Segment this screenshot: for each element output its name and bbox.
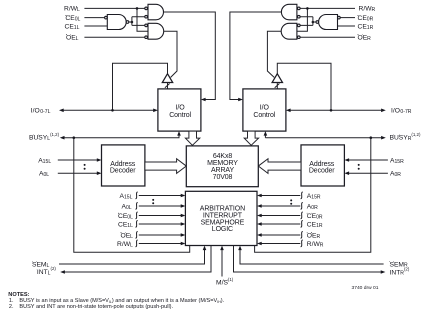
svg-text:R/WL: R/WL (64, 6, 80, 13)
junction I/O 0-7L (111, 109, 114, 112)
arrow SEM_R into arbitration bottom (238, 246, 242, 251)
wire OE_R (300, 36, 355, 38)
arrow OE_L into arbitration (181, 233, 186, 237)
wire M/S (221, 249, 223, 276)
svg-text:A0R: A0R (390, 171, 401, 178)
junction I/O 0-7R (330, 109, 333, 112)
svg-text:A0R: A0R (307, 203, 318, 210)
wire CE0R (340, 17, 355, 19)
arrow A0R into arbitration (257, 204, 262, 208)
svg-text:OEL: OEL (121, 232, 134, 239)
svg-text:A0L: A0L (39, 171, 49, 178)
wire R/W_R arb (261, 243, 300, 245)
dots arb right (290, 199, 292, 201)
arrow into right I/O control left edge (238, 98, 243, 102)
wire A15L arb (139, 195, 181, 197)
nand gate right U2 (319, 15, 338, 30)
wire right bottom and output (267, 31, 281, 77)
arrow into left I/O control left edge (153, 109, 158, 113)
svg-text:A0L: A0L (122, 203, 132, 210)
junction R/W_L (136, 7, 139, 10)
arrow left on BUSY_L (60, 136, 65, 140)
svg-text:CE1L: CE1L (118, 221, 133, 228)
wire INT_R (234, 246, 381, 272)
arrow left on INT_L (60, 270, 65, 274)
junction nand right output node (312, 21, 315, 24)
wire BUSY_R wrap to arbitration (255, 138, 371, 253)
svg-text:A15L: A15L (38, 158, 51, 165)
squiggle CE0L (136, 212, 138, 219)
dots A left (84, 164, 86, 166)
junction BUSY_L (73, 136, 76, 139)
wire A0L arb (139, 205, 181, 207)
arrow right on INT_R (381, 270, 386, 274)
wire CE1R (338, 25, 356, 27)
wire SEM_R (240, 249, 384, 264)
arrow A0L into arbitration (181, 204, 186, 208)
squiggle R/W_L (136, 240, 138, 247)
wire R/W_L arb (139, 243, 181, 245)
arrow A15R into decoder (344, 158, 349, 162)
wire nand right output to and gates (300, 17, 316, 26)
arrow CE0R into arbitration (257, 214, 262, 218)
squiggle A0R (301, 203, 303, 210)
block Address Decoder right (301, 145, 344, 186)
bus arrow decoder right to memory (258, 159, 301, 174)
arrow BUSY_L into left I/O control bottom (177, 131, 181, 136)
wire nand output to and gates (129, 17, 145, 26)
svg-text:ARRAY: ARRAY (211, 167, 234, 174)
svg-text:1.BUSY is an input as a Slave: 1.BUSY is an input as a Slave (M/S=VIL) … (9, 298, 225, 304)
svg-text:OER: OER (307, 232, 321, 239)
wire R/W_R (297, 8, 355, 31)
wire OE_L (84, 36, 144, 38)
arrow BUSY_R into right I/O control bottom (264, 131, 268, 136)
arrow OE_R into arbitration (257, 233, 262, 237)
arrow into left I/O control right edge (201, 98, 206, 102)
arrow CE1L into arbitration (181, 222, 186, 226)
buffer triangle left (162, 74, 172, 83)
arrow right on BUSY_R (381, 136, 386, 140)
block memory array (186, 146, 258, 187)
svg-text:I/O0-7L: I/O0-7L (31, 108, 51, 115)
arrow A15L into decoder (97, 158, 102, 162)
squiggle OE_L (136, 232, 138, 239)
svg-text:CE0L: CE0L (65, 15, 80, 22)
svg-text:2.BUSY and INT are non-tri-sta: 2.BUSY and INT are non-tri-state totem-p… (9, 304, 174, 310)
wire INT_L (65, 246, 211, 272)
wire R/W_L (84, 8, 148, 31)
svg-text:3740 drw 01: 3740 drw 01 (352, 285, 379, 291)
and gate left top G1 (148, 4, 163, 19)
arrow A0R into decoder (344, 171, 349, 175)
svg-text:Decoder: Decoder (309, 168, 335, 175)
squiggle A15R (301, 192, 303, 199)
and gate right bottom G4 (281, 23, 297, 39)
svg-text:A15L: A15L (120, 193, 133, 200)
squiggle CE0R (301, 212, 303, 219)
arrow A0L into decoder (97, 171, 102, 175)
svg-text:CE0R: CE0R (358, 15, 374, 22)
svg-text:OEL: OEL (66, 34, 79, 41)
wire BUSY_L (64, 134, 179, 138)
svg-text:R/WR: R/WR (307, 241, 324, 248)
svg-text:Control: Control (169, 112, 191, 119)
wire OE_L arb (139, 234, 181, 236)
wire BUSY_L wrap to arbitration (74, 138, 190, 253)
arrow right on I/O 0-7R (381, 109, 386, 113)
arrow A15L into arbitration (181, 194, 186, 198)
arrow M/S into arbitration bottom (220, 246, 224, 251)
bus arrow decoder left to memory (145, 159, 186, 174)
nand gate left U1 (107, 15, 126, 30)
wire right buffer output (275, 83, 280, 89)
and gate right top G3 (281, 4, 296, 19)
dots A right (358, 164, 360, 166)
block arbitration logic (185, 191, 257, 245)
arrow CE1R into arbitration (257, 222, 262, 226)
wire SEM_L (59, 249, 205, 264)
wire right top and output (230, 12, 281, 99)
svg-text:Control: Control (253, 112, 275, 119)
svg-text:MEMORY: MEMORY (207, 160, 238, 167)
wire A0R arb (261, 205, 300, 207)
wire left buffer enable from I/O line (113, 63, 168, 110)
squiggle A0L (136, 203, 138, 210)
wire A15R (349, 159, 388, 161)
svg-text:R/WR: R/WR (359, 6, 376, 13)
arrow A15R into arbitration (257, 194, 262, 198)
svg-text:Decoder: Decoder (110, 168, 136, 175)
dots arb left (152, 199, 154, 201)
block I/O Control left (158, 89, 201, 131)
wire A0L (58, 172, 97, 174)
bus arrow left I/O control down to memory (185, 131, 199, 145)
svg-text:CE1R: CE1R (358, 23, 374, 30)
svg-text:CE0R: CE0R (307, 213, 323, 220)
wire left buffer output (165, 83, 170, 89)
junction R/W_R (306, 7, 309, 10)
svg-text:LOGIC: LOGIC (212, 226, 233, 233)
squiggle CE1L (136, 221, 138, 228)
wire CE0L (84, 17, 104, 19)
svg-text:CE0L: CE0L (118, 213, 133, 220)
wire I/O 0-7L (64, 109, 154, 111)
svg-text:R/WL: R/WL (117, 241, 133, 248)
bus arrow right I/O control down to memory (244, 131, 258, 145)
arrow R/W_L into arbitration (181, 242, 186, 246)
block I/O Control right (243, 89, 286, 131)
squiggle OE_R (301, 232, 303, 239)
arrow into right I/O control right edge (286, 109, 291, 113)
wire right buffer enable from I/O line (277, 63, 331, 110)
svg-text:SEML: SEML (32, 261, 50, 268)
arrow left on I/O 0-7L (59, 109, 64, 113)
svg-text:I/O: I/O (176, 105, 186, 112)
svg-text:CE1L: CE1L (65, 23, 80, 30)
wire CE1L (84, 25, 107, 27)
arrow CE0L into arbitration (181, 214, 186, 218)
wire I/O 0-7R (290, 109, 381, 111)
wire CE0R arb (261, 215, 300, 217)
arrow SEM_L into arbitration bottom (203, 246, 207, 251)
wire CE1R arb (261, 223, 300, 225)
squiggle CE1R (301, 221, 303, 228)
squiggle A15L (136, 192, 138, 199)
svg-text:I/O: I/O (260, 105, 270, 112)
svg-text:I/O0-7R: I/O0-7R (391, 108, 412, 115)
svg-text:INTERRUPT: INTERRUPT (203, 212, 243, 219)
wire A15L (58, 159, 97, 161)
svg-text:SEMR: SEMR (390, 261, 409, 268)
arrow R/W_R into arbitration (257, 242, 262, 246)
block Address Decoder left (102, 145, 145, 186)
wire left top and output (164, 12, 216, 99)
svg-text:OER: OER (358, 34, 372, 41)
wire CE0L arb (139, 215, 181, 217)
svg-text:A15R: A15R (390, 158, 404, 165)
wire left bottom and output (164, 31, 177, 77)
junction BUSY_R (370, 136, 373, 139)
svg-text:70V08: 70V08 (213, 174, 233, 181)
wire OE_R arb (261, 234, 300, 236)
and gate left bottom G2 (148, 23, 164, 39)
wire A15R arb (261, 195, 300, 197)
squiggle R/W_R (301, 240, 303, 247)
wire A0R (349, 172, 388, 174)
svg-text:A15R: A15R (307, 193, 321, 200)
junction nand output node (131, 21, 134, 24)
wire BUSY_R (265, 134, 381, 138)
wire CE1L arb (139, 223, 181, 225)
buffer triangle right (272, 74, 282, 83)
svg-text:CE1R: CE1R (307, 221, 323, 228)
